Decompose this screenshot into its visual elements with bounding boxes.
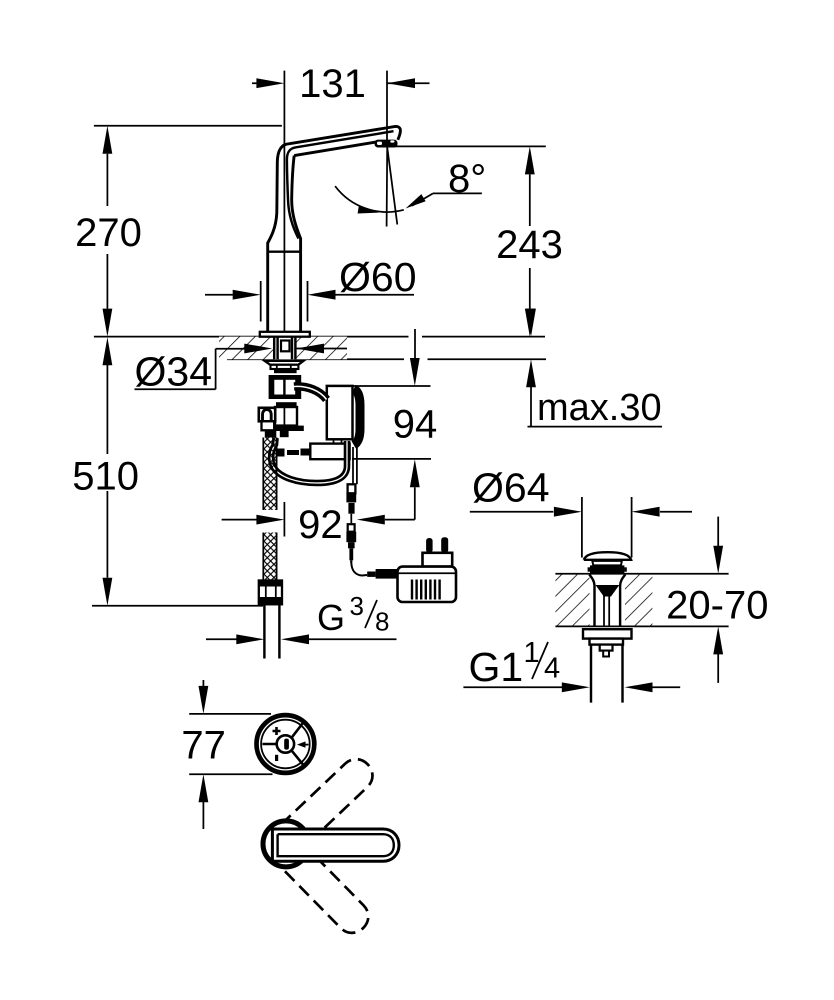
svg-text:G1: G1 [469, 644, 524, 690]
svg-text:Ø34: Ø34 [135, 348, 213, 394]
svg-text:510: 510 [72, 455, 139, 499]
svg-text:1: 1 [524, 637, 540, 669]
svg-text:Ø60: Ø60 [339, 254, 417, 300]
svg-text:Ø64: Ø64 [472, 465, 550, 511]
svg-text:3: 3 [350, 591, 364, 621]
svg-text:8: 8 [375, 607, 389, 637]
svg-text:92: 92 [298, 503, 343, 547]
svg-text:4: 4 [544, 653, 560, 685]
svg-text:20-70: 20-70 [666, 584, 768, 628]
svg-text:243: 243 [496, 223, 563, 267]
svg-text:131: 131 [299, 62, 366, 106]
svg-text:max.30: max.30 [537, 387, 662, 429]
svg-text:8°: 8° [448, 157, 486, 201]
svg-text:270: 270 [75, 211, 142, 255]
svg-text:77: 77 [181, 724, 226, 768]
svg-text:G: G [317, 597, 345, 638]
svg-text:94: 94 [393, 403, 438, 447]
